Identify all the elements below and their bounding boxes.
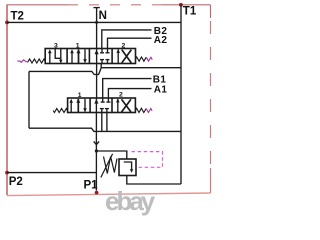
svg-text:A2: A2 [154,35,168,46]
enclosure border bottom (red) [7,193,211,196]
spring V2 left [53,109,67,113]
spring V1 left [28,59,46,63]
wire tank rail T2-T1 [7,21,181,23]
valve V2 centre position blocked ports and open centre passage [96,98,110,113]
junction node N on rail [95,21,98,24]
valve V2 position 1 arrows [71,99,85,112]
relief valve spring [104,157,118,174]
wire N vertical above valve 1 [96,8,98,49]
junction node relief branch [95,149,98,152]
relief valve adjustment arrow [101,154,113,178]
wire N between valves [96,64,98,99]
svg-text:ebay: ebay [105,186,156,216]
relief valve RV body [119,159,136,176]
pilot lead V1 right (magenta) [146,57,152,61]
port dot T1 [179,3,183,7]
port dot P1 [95,191,99,195]
svg-text:N: N [99,10,107,22]
enclosure border right (red dashed) [210,5,212,18]
svg-text:T2: T2 [11,11,24,23]
svg-text:1: 1 [76,43,80,50]
valve V1 body [45,49,135,64]
wire relief outlet to T1 channel [127,176,181,185]
wire left gallery vertical [28,71,30,128]
pilot lead V2 right (magenta) [146,109,152,113]
wire left gallery top with crossover dip [29,68,101,75]
wire valve2 tank stub b [106,113,108,132]
valve V1 position 3 float symbol [50,49,61,63]
spring V2 right [135,108,146,112]
relief valve internal flow path [124,162,132,171]
wire valve1 tank drop to T1 channel [101,64,181,68]
valve V2 position 2 crossed arrows [118,99,131,112]
valve V1 position 1 arrows [72,49,85,63]
svg-text:P2: P2 [9,176,23,188]
svg-text:3: 3 [54,43,58,50]
enclosure border top (red dashed) [7,4,68,6]
wire port B1 riser [103,79,152,98]
wire relief branch [96,151,126,159]
svg-text:T1: T1 [183,5,197,17]
svg-text:1: 1 [78,92,82,99]
wire valve2 tank stub a [101,113,103,132]
spring V1 right [136,57,147,61]
svg-text:P1: P1 [84,180,99,192]
port dot P2 [5,171,9,175]
valve V1 position 2 crossed arrows [118,50,131,64]
arrow flow direction chevron [94,141,99,144]
pilot lead V1 left (magenta) [17,60,27,62]
valve V1 centre position blocked ports and open centre passage [97,49,110,64]
relief valve pilot line (magenta dashed) [132,152,163,168]
svg-text:2: 2 [122,43,126,50]
wire T1 channel right side [180,22,182,184]
wire P2 line [7,172,96,174]
enclosure border left (red solid) [6,5,8,196]
wire port A1 riser [108,89,151,98]
enclosure border right lower (red solid) [210,168,212,193]
node N plug cap [93,7,99,9]
wire pressure line below valve2 [95,113,97,191]
valve V2 body [68,98,136,113]
svg-text:A1: A1 [154,84,168,95]
wire port B2 riser [102,30,152,49]
wire lower gallery with crossover dip to T1 channel [29,128,181,131]
svg-text:2: 2 [119,92,123,99]
port dot T2 [5,21,9,25]
wire T1 riser top [180,5,182,23]
wire port A2 riser [108,38,152,48]
